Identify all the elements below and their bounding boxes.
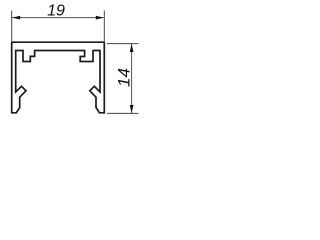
- dimension 14: extension line top: [107, 43, 139, 45]
- profile outline (extruded channel cross-section): [12, 42, 105, 113]
- dimension 14: dimension line: [131, 44, 133, 113]
- dimension 19: arrow right: [96, 16, 104, 20]
- dimension 19: extension line left: [11, 11, 13, 42]
- svg-text:14: 14: [115, 68, 134, 87]
- dimension 19: dimension line: [12, 17, 104, 19]
- dimension 14: arrow up: [130, 44, 134, 52]
- dimension 14: arrow down: [130, 105, 134, 113]
- svg-text:19: 19: [47, 3, 65, 20]
- dimension 19: extension line right: [103, 11, 105, 42]
- dimension 19: arrow left: [12, 16, 20, 20]
- dimension 14: extension line bottom: [107, 112, 139, 114]
